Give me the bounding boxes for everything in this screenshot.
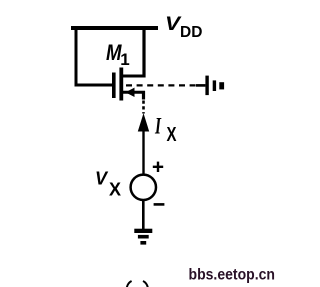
svg-text:1: 1 — [120, 50, 129, 69]
svg-text:V: V — [95, 169, 109, 189]
svg-text:X: X — [109, 180, 121, 200]
svg-text:DD: DD — [180, 24, 202, 41]
svg-text:bbs.eetop.cn: bbs.eetop.cn — [189, 267, 276, 284]
svg-text:X: X — [167, 123, 177, 146]
svg-text:I: I — [154, 114, 161, 139]
